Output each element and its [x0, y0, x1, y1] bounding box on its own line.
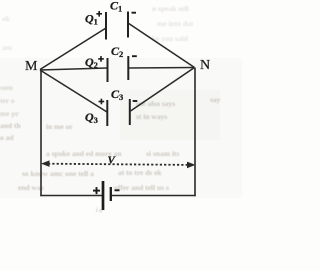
svg-text:end was: end was — [18, 183, 44, 192]
svg-text:am: am — [2, 43, 13, 52]
svg-text:me pr: me pr — [0, 109, 20, 118]
svg-text:ter o: ter o — [0, 96, 15, 105]
svg-text:som: som — [0, 83, 14, 92]
svg-text:n speak sell: n speak sell — [152, 4, 189, 13]
svg-text:N: N — [200, 58, 210, 73]
svg-text:in me or: in me or — [46, 122, 73, 131]
svg-text:st in ways: st in ways — [136, 112, 167, 121]
svg-text:o ad: o ad — [0, 133, 14, 142]
svg-text:be you said: be you said — [152, 34, 189, 43]
svg-text:say: say — [210, 95, 221, 104]
svg-text:me into dat: me into dat — [157, 19, 194, 28]
svg-text:ok: ok — [2, 14, 11, 23]
svg-text:at to tre ds ek: at to tre ds ek — [118, 168, 162, 177]
svg-text:so know amc one tell a: so know amc one tell a — [22, 169, 94, 178]
svg-text:si snam its: si snam its — [146, 149, 179, 158]
svg-text:offer and tell us s: offer and tell us s — [114, 183, 169, 192]
svg-text:M: M — [25, 59, 38, 74]
svg-text:and th: and th — [0, 121, 21, 130]
